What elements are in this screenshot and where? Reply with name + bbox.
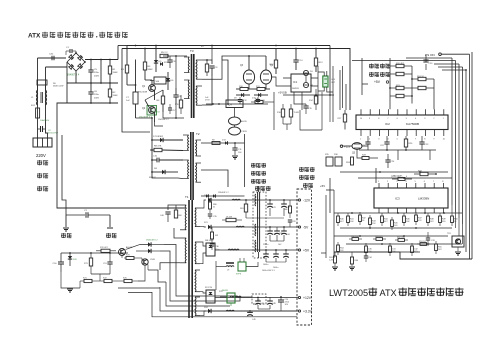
svg-text:R5 2.2: R5 2.2	[161, 52, 168, 54]
capacitor C46 +5V	[273, 253, 279, 255]
wire primary to T2	[151, 132, 153, 140]
wire standby top rail	[61, 252, 128, 254]
wire aux out right	[272, 77, 283, 78]
resistor R46	[403, 216, 406, 223]
capacitor C40 primary	[165, 211, 170, 213]
wire +5V row	[215, 249, 297, 251]
transformer T3 secondary lower	[196, 86, 197, 105]
IC2 top pins	[360, 109, 362, 115]
wire stair bus C	[148, 270, 166, 282]
resistor R43	[369, 218, 372, 225]
svg-text:1N4148 X 2: 1N4148 X 2	[146, 240, 158, 242]
wire IC3 field h3	[334, 235, 448, 237]
wire choke to R0	[37, 85, 39, 90]
resistor R71 row	[84, 279, 92, 282]
svg-text:10A/250V: 10A/250V	[40, 119, 50, 122]
resistor R10	[240, 88, 248, 91]
svg-text:SE431: SE431	[222, 290, 229, 292]
transistor Q11	[229, 127, 241, 135]
transistor Q4	[260, 70, 271, 84]
resistor R26	[404, 139, 407, 147]
transformer T3 core	[191, 54, 193, 118]
capacitor C47 +12V	[255, 300, 261, 302]
transformer T3 primary lower	[188, 80, 189, 99]
svg-text:C28: C28	[292, 221, 295, 223]
diode D5	[154, 60, 158, 63]
transistor Q5	[352, 143, 362, 150]
resistor R2 bleeder	[108, 89, 111, 97]
wire Q2 emitter down	[155, 122, 164, 126]
svg-text:D7 FR302: D7 FR302	[153, 136, 164, 138]
capacitor C1 top of bridge	[69, 49, 71, 53]
wire -5V gnd bar	[270, 240, 284, 242]
diode D11 FR104	[160, 62, 163, 66]
resistor C30	[365, 246, 368, 253]
capacitor C33	[426, 237, 430, 239]
svg-text:150K: 150K	[113, 95, 119, 97]
capacitor C11	[232, 147, 237, 149]
capacitor C8	[173, 94, 178, 96]
wire primary top rail	[127, 45, 330, 47]
wire nested loop 1	[176, 268, 237, 296]
svg-text:150K: 150K	[113, 72, 119, 74]
wire aux bottom	[206, 103, 268, 105]
fuse FU2	[36, 108, 40, 118]
transformer T1 primary upper	[185, 205, 186, 230]
wire Q1 collector rail	[127, 84, 136, 86]
wire HV+ to primary	[117, 46, 119, 60]
capacitor C50 standby	[60, 253, 62, 262]
transistor Q9 (green)	[238, 262, 246, 271]
wire mag-amp row	[216, 266, 226, 268]
regulator U4 (green) bottom	[227, 293, 235, 303]
svg-text:1.2K: 1.2K	[329, 260, 334, 262]
svg-text:T2: T2	[196, 132, 200, 136]
capacitor C12	[238, 99, 242, 101]
svg-text:+5V: +5V	[303, 248, 310, 252]
capacitor C34 hanging	[364, 255, 368, 257]
resistor R82 sec	[211, 232, 214, 239]
inductor L4 -5V	[236, 225, 244, 228]
wire q8 down	[147, 265, 149, 271]
inductor L6 +12V	[230, 295, 241, 298]
wire right bus top corners	[406, 57, 452, 59]
resistor R18 boxed part	[154, 77, 166, 84]
wire T2 sec low	[201, 170, 228, 187]
transistor Q6 boxed	[452, 236, 464, 247]
wire stair bus A	[164, 245, 176, 269]
svg-text:2SC3039: 2SC3039	[138, 92, 148, 94]
wire T2 sec bottom right	[201, 182, 206, 187]
transformer T1 core	[188, 200, 190, 318]
resistor R61	[244, 204, 247, 212]
diode D25 1N4148	[148, 242, 151, 246]
capacitor C20	[423, 59, 428, 61]
label hot ground	[61, 233, 66, 235]
resistor R30 above IC3	[398, 178, 405, 181]
resistor R40	[337, 216, 340, 223]
wire N to bridge	[46, 66, 68, 68]
capacitor C8a	[167, 59, 172, 61]
svg-text:220u: 220u	[94, 72, 100, 74]
capacitor C9 snubber	[209, 65, 214, 67]
op-amp IC3 LM339N comparator	[374, 188, 448, 208]
wire IC2 top bus	[389, 58, 391, 109]
capacitor C14	[293, 59, 298, 61]
resistor R52	[398, 239, 405, 242]
title text: ATX switching power supply schematic heading	[28, 32, 128, 40]
transformer T2 primary lower	[188, 160, 189, 179]
wire mid vertical links	[321, 92, 323, 130]
ground R63	[332, 266, 338, 268]
inductor L7 +3.3V	[226, 309, 234, 312]
resistor R47	[415, 215, 418, 222]
label 220V AC mains input (vertical)	[36, 153, 48, 191]
wire IC2 to IC3 links	[358, 150, 368, 178]
svg-text:-5V: -5V	[303, 225, 309, 229]
resistor R3	[125, 65, 128, 73]
capacitor CX2	[51, 56, 53, 60]
capacitor C15	[303, 105, 308, 107]
resistor R0 across line	[37, 80, 47, 85]
wire T1 primary feed	[201, 195, 245, 197]
transformer T3 secondary upper	[196, 60, 197, 79]
resistor R51	[376, 238, 383, 241]
wire IC1 down links	[294, 92, 306, 104]
svg-text:-12V: -12V	[303, 198, 311, 202]
resistor R19 right	[179, 100, 182, 108]
diode D24 +3.3V rect	[208, 309, 211, 313]
op-amp IC4 box	[226, 100, 243, 108]
wire -5V row	[211, 226, 297, 228]
zener ZD1	[68, 256, 72, 259]
wire IC2 bottom rail	[359, 149, 436, 151]
svg-text:+3.3V: +3.3V	[303, 309, 313, 313]
wire from AC terminal L up	[37, 58, 39, 138]
capacitor C20 output	[278, 299, 284, 301]
resistor R56	[451, 216, 454, 223]
svg-text:1000u/10V X 3: 1000u/10V X 3	[262, 270, 275, 272]
wire sec center taps	[199, 227, 201, 242]
svg-text:LWT2005: LWT2005	[329, 288, 368, 298]
diode D23 +12V dual rect	[206, 290, 215, 303]
wire T3 sec return	[202, 76, 212, 105]
wire aux rail	[222, 56, 245, 60]
inductor L3 -12V	[232, 198, 240, 201]
resistor R9	[212, 142, 220, 145]
wire output ground rail	[215, 261, 217, 290]
diode D9	[241, 93, 244, 97]
capacitor C21	[365, 141, 370, 143]
svg-text:+5V: +5V	[320, 184, 325, 188]
resistor R15	[255, 101, 263, 104]
capacitor C28 inter-row	[288, 219, 292, 221]
capacitor C13	[256, 99, 260, 101]
svg-text:SBL3040: SBL3040	[205, 240, 214, 242]
svg-text:1N4007 X 4: 1N4007 X 4	[67, 75, 80, 77]
svg-text:200V: 200V	[94, 97, 100, 99]
wire HV bus down-left	[57, 103, 185, 208]
svg-text:200V: 200V	[94, 75, 100, 77]
capacitor C10	[156, 158, 158, 163]
transformer T1 sec winding A	[195, 208, 196, 227]
svg-text:5W: 5W	[215, 235, 218, 237]
capacitor C43 -5V	[267, 230, 273, 232]
svg-text:R20 4K7: R20 4K7	[396, 63, 405, 65]
wire stair bus B	[160, 251, 170, 262]
wire C20 gnd	[280, 309, 282, 311]
dashed enclosure around output choke	[253, 192, 266, 258]
svg-text:PS ON: PS ON	[425, 53, 435, 57]
svg-text:A1015: A1015	[241, 120, 248, 123]
resistor R66 inter-row	[289, 206, 292, 213]
transistor Q1 switch	[149, 85, 156, 92]
wire opto pins	[318, 72, 324, 76]
capacitor C2 X-cap	[40, 126, 42, 132]
capacitor C42 -12V	[281, 203, 287, 205]
resistor R75 row	[124, 279, 132, 282]
wire +5V stub	[362, 83, 368, 85]
wire secondary top rail	[122, 49, 350, 111]
resistor R28	[362, 157, 369, 160]
wire IC3 top bus	[358, 177, 452, 179]
wire CY1 right drop	[109, 215, 111, 227]
wire module to cap	[266, 296, 297, 298]
resistor R74	[126, 257, 134, 260]
svg-text:275V: 275V	[205, 99, 210, 101]
capacitor C7 snubber	[133, 92, 138, 104]
transformer T3 primary upper	[188, 57, 189, 73]
wire bridge - bottom	[75, 71, 77, 83]
svg-text:(-PB OUT): (-PB OUT)	[391, 175, 402, 178]
wire Q5 links	[343, 145, 352, 147]
resistor R41	[347, 216, 350, 223]
wire IC1 pins right	[311, 77, 318, 79]
svg-text:R70 4K7: R70 4K7	[100, 247, 109, 249]
diode D26 1N4148	[148, 249, 151, 253]
wire top rail right drop	[361, 58, 363, 95]
svg-text:560K 1/2W: 560K 1/2W	[53, 86, 63, 88]
wire connector col a	[325, 195, 327, 258]
resistor R62 +5V load	[283, 253, 289, 255]
svg-text:STPS: STPS	[236, 274, 242, 276]
diode D21 -5V rect	[208, 225, 211, 229]
transformer T1 sec winding D	[195, 297, 196, 316]
resistor R73 vertical	[89, 258, 92, 266]
wire T1 primary lower link	[174, 228, 180, 238]
wire top filter to bridge	[38, 57, 67, 59]
svg-text:IC1: IC1	[293, 80, 298, 84]
svg-text:1N4148 X 2: 1N4148 X 2	[158, 119, 169, 121]
svg-text:1000u: 1000u	[273, 267, 278, 269]
svg-text:330K: 330K	[148, 69, 154, 71]
svg-text:1K 5W: 1K 5W	[226, 217, 232, 219]
resistor R12	[274, 60, 277, 68]
ground standby	[67, 288, 73, 290]
wire +12V gnd bar	[258, 308, 270, 310]
wire aux low rail	[283, 123, 291, 125]
svg-text:IC4: IC4	[228, 104, 232, 107]
wire right vertical feedback bus	[451, 58, 453, 205]
svg-text:C1815: C1815	[241, 131, 248, 133]
ground hot side	[63, 227, 69, 229]
wire opto to IC2 area	[339, 70, 341, 110]
svg-text:R8 47K: R8 47K	[154, 146, 162, 148]
resistor R81 1K5W	[226, 218, 236, 221]
wire IC3 field h1	[334, 212, 462, 214]
bridge rectifier D1-D4	[67, 53, 85, 71]
capacitor C24	[385, 159, 390, 161]
wire nested loop 3	[166, 282, 230, 306]
svg-text:IC3: IC3	[395, 197, 400, 201]
wire HV mid rail	[100, 60, 102, 84]
transformer T1 sec winding C	[195, 270, 196, 292]
wire right border vertical	[471, 52, 473, 259]
inductor L5 +5V	[228, 248, 239, 251]
wire aux to T3 return	[202, 60, 222, 79]
wire bottom HV rail	[67, 102, 118, 104]
capacitor C49 +3.3V	[247, 311, 253, 313]
capacitor C6 filter	[88, 91, 93, 93]
svg-text:R66: R66	[284, 209, 287, 211]
diode D6	[166, 78, 170, 81]
transistor Q12 circle pair	[303, 70, 308, 75]
diode D22 +5V dual rect	[206, 243, 215, 256]
wire 5VSB rail right	[283, 94, 334, 96]
wire choke top	[258, 186, 260, 192]
resistor R72 row	[104, 279, 112, 282]
IC2 bottom pins	[360, 130, 362, 137]
resistor R54	[337, 245, 340, 252]
wire T1 primary top link	[168, 205, 180, 210]
wire nested loop 2	[170, 262, 240, 301]
transistor Q10	[229, 117, 241, 125]
wire stair bus D	[118, 287, 160, 289]
transistor Q2 switch	[147, 106, 157, 116]
resistor R4	[143, 62, 146, 70]
resistor R11	[257, 88, 265, 91]
svg-text:1000u: 1000u	[263, 264, 268, 266]
inductor module dashed box bottom	[252, 294, 266, 304]
svg-text:TL431: TL431	[294, 112, 301, 114]
svg-text:220u: 220u	[94, 94, 100, 96]
wire crossing a	[145, 90, 163, 100]
resistor R70	[101, 249, 110, 252]
wire nested loop 4	[160, 287, 297, 311]
wire stair bus E	[128, 292, 152, 294]
resistor R53	[420, 243, 427, 246]
wire T2 right vertical	[221, 140, 223, 156]
transistor Q8 standby	[142, 259, 148, 265]
svg-text:DM311: DM311	[292, 88, 300, 90]
connector J2 DC output (dashed box)	[297, 189, 312, 325]
wire left rail down	[122, 49, 150, 133]
wire IC3 field h5	[334, 251, 420, 253]
wire to T3 primary	[163, 55, 187, 57]
svg-text:R53 1K: R53 1K	[419, 241, 426, 243]
svg-text:R50 10K: R50 10K	[351, 236, 359, 238]
svg-text:T3: T3	[190, 49, 194, 53]
wire aux pair	[245, 55, 266, 57]
svg-text:ATX: ATX	[28, 33, 41, 40]
optocoupler IC5 (green)	[323, 76, 328, 87]
capacitor C23	[419, 141, 424, 143]
transformer T2 core	[190, 132, 192, 200]
svg-text:1N5408 X 2: 1N5408 X 2	[218, 192, 229, 194]
svg-text:+12V: +12V	[303, 296, 312, 300]
wire T2 sec top right	[201, 142, 245, 144]
resistor R17	[289, 109, 292, 117]
inductor L2 output choke stack	[257, 192, 259, 252]
capacitor CY1 to grounds	[66, 214, 85, 216]
transformer T1 sec winding B	[195, 242, 196, 264]
svg-text:C17: C17	[172, 110, 175, 112]
transformer T2 primary upper	[188, 135, 189, 151]
op-amp IC2 KA7500B PWM controller	[356, 115, 448, 130]
capacitor C41 -12V	[267, 203, 273, 205]
wire IC3 field h2	[340, 227, 452, 229]
svg-text:CY: CY	[84, 210, 88, 212]
wire aux link1	[268, 74, 276, 80]
capacitor C22	[384, 141, 389, 143]
svg-text:220V: 220V	[36, 153, 46, 158]
resistor R48	[427, 216, 430, 223]
resistor R60 primary	[174, 210, 177, 218]
transformer T2 secondary upper	[196, 140, 197, 156]
svg-text:T1: T1	[185, 195, 189, 199]
label cold ground	[106, 233, 111, 235]
resistor R64 hanging	[351, 257, 354, 264]
resistor R44	[381, 216, 384, 223]
wire right bus corner stubs	[413, 58, 415, 75]
svg-text:LM339N: LM339N	[418, 197, 429, 201]
wire CY1 left drop	[65, 215, 67, 227]
inductor L9 mag-amp	[226, 262, 234, 264]
resistor R8	[154, 148, 162, 151]
wire -12V row	[211, 199, 297, 201]
label transformer (below)	[255, 186, 260, 188]
wire +5V gnd bar	[266, 261, 286, 263]
capacitor C36 sec	[210, 243, 214, 245]
svg-text:KA7500B: KA7500B	[406, 122, 419, 126]
wire standby mid	[91, 273, 110, 275]
svg-text:R52 22K: R52 22K	[397, 237, 405, 239]
resistor R1 bleeder	[108, 66, 111, 74]
resistor R6	[161, 96, 164, 104]
svg-text:+12V: +12V	[344, 145, 351, 149]
title text: LWT2005 ATX power supply circuit diagram caption	[329, 288, 464, 299]
wire bridge left rail	[66, 62, 68, 103]
resistor R63 hanging	[334, 256, 337, 263]
IC3 bottom pins	[378, 208, 380, 213]
wire from AC terminal N up	[46, 67, 48, 138]
wire +5V feedback up	[309, 240, 311, 253]
wire R15 riser	[273, 92, 275, 130]
wire T3 right top	[211, 46, 213, 61]
transformer T1 primary lower	[185, 238, 186, 263]
svg-text:2200u: 2200u	[263, 244, 268, 246]
wire opto columns	[317, 66, 319, 104]
capacitor C35 sec snubber	[208, 213, 212, 215]
diode D20 -12V rect	[208, 198, 211, 202]
wire bridge + output right	[85, 59, 118, 61]
capacitor C45 +5V	[263, 253, 269, 255]
resistor R27 left of IC2	[343, 114, 346, 122]
resistor R16	[281, 109, 284, 117]
resistor R14	[314, 96, 317, 104]
resistor R5	[160, 54, 168, 57]
svg-text:330K: 330K	[346, 162, 351, 164]
